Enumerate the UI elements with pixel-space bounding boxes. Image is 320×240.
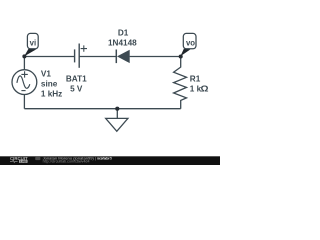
wire bottom rail bbox=[24, 108, 180, 110]
svg-text:vi: vi bbox=[30, 38, 37, 47]
V1 plus sign bbox=[21, 71, 27, 77]
svg-text:BAT1: BAT1 bbox=[66, 74, 87, 83]
footer bar bbox=[0, 156, 220, 165]
svg-text:recortador 5: recortador 5 bbox=[97, 157, 112, 161]
node ground junction dot bbox=[115, 107, 119, 111]
svg-text:http://circuitlab.com/c6wv4d4: http://circuitlab.com/c6wv4d4 bbox=[43, 159, 90, 163]
diode D1 cathode bar bbox=[115, 50, 117, 64]
svg-text:5 V: 5 V bbox=[70, 84, 83, 93]
flag vo pointer bbox=[180, 49, 190, 57]
ground triangle bbox=[106, 118, 128, 131]
battery BAT1 long plate bbox=[78, 44, 80, 68]
resistor R1 top lead and zigzag bbox=[174, 57, 187, 109]
footer logo LAB badge bbox=[19, 160, 28, 163]
wire top rail left (node vi to battery) bbox=[24, 56, 74, 58]
diode D1 triangle bbox=[117, 50, 130, 63]
wire source top lead bbox=[23, 57, 25, 71]
svg-text:R1: R1 bbox=[190, 74, 201, 83]
flag vo box bbox=[183, 33, 196, 48]
svg-text:1N4148: 1N4148 bbox=[108, 39, 137, 48]
footer avatar block bbox=[35, 157, 40, 160]
node vo junction dot bbox=[179, 54, 183, 58]
svg-text:LAB: LAB bbox=[20, 160, 27, 164]
wire top rail right (diode to node vo) bbox=[130, 56, 181, 58]
svg-text:sine: sine bbox=[41, 79, 58, 88]
flag vi pointer bbox=[24, 48, 36, 56]
footer logo wave bbox=[10, 160, 18, 162]
V1 minus sign bbox=[21, 90, 25, 92]
wire source bottom lead bbox=[23, 94, 25, 109]
ground stub bbox=[116, 109, 118, 119]
svg-text:vo: vo bbox=[186, 38, 195, 47]
battery BAT1 short plate bbox=[74, 49, 76, 62]
svg-text:Ω: Ω bbox=[201, 84, 210, 93]
svg-text:D1: D1 bbox=[118, 29, 129, 38]
svg-text:1 kHz: 1 kHz bbox=[41, 89, 62, 98]
node vi junction dot bbox=[22, 54, 26, 58]
svg-text:V1: V1 bbox=[41, 69, 51, 78]
battery plus sign bbox=[81, 45, 87, 51]
flag vi box bbox=[27, 33, 38, 48]
wire top rail middle (battery to diode) bbox=[79, 56, 116, 58]
voltage source V1 circle bbox=[12, 70, 37, 95]
V1 sine waveform bbox=[17, 76, 30, 88]
